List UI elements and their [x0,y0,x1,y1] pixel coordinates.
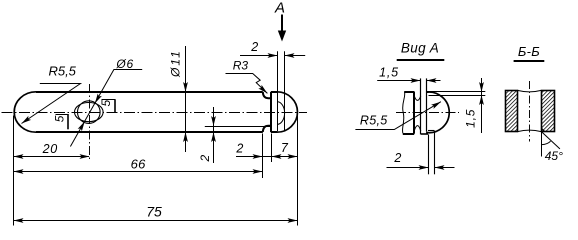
dia6 arrow upper [93,94,102,105]
head slot bottom arc [277,102,285,125]
view A groove arcs [414,96,421,101]
dimension 66 [14,171,263,173]
view A dimension 1,5 top [377,80,421,82]
view A R5,5 leader [355,102,441,130]
slot width 2 dimension (top) [240,55,277,57]
dia6 arrow lower [78,120,87,131]
45 degree dimension [541,132,543,157]
svg-text:5: 5 [52,115,66,122]
view A centerline [396,112,459,114]
svg-text:20: 20 [42,142,58,156]
svg-text:45°: 45° [545,149,563,163]
dimension 2 and 7 (bottom right) [236,156,297,158]
extension line groove right [271,134,273,163]
R3 leader [226,74,268,94]
view A body edges [404,91,414,93]
svg-text:Виg A: Виg A [401,40,439,55]
section chamfer edge [541,128,545,132]
svg-text:7: 7 [281,141,289,155]
dia11 dimension [185,46,187,152]
svg-text:R3: R3 [233,59,249,73]
svg-text:2: 2 [250,40,258,54]
section right wall hatched [542,91,555,132]
svg-text:2: 2 [198,155,212,163]
svg-text:A: A [274,0,285,17]
view A dimension 2 bottom [387,167,429,169]
view A bottom extension lines [428,134,430,174]
svg-text:75: 75 [146,204,162,220]
groove profile [263,92,271,98]
view A slot bottom step [421,133,428,135]
svg-text:2: 2 [235,142,243,156]
svg-text:1,5: 1,5 [464,109,478,128]
hole circle dia 6 [78,101,101,124]
groove depth 2 dimension [213,107,215,163]
extension line right end [297,116,299,226]
view A top extension horizontals [426,91,485,93]
svg-text:R5,5: R5,5 [360,114,388,128]
svg-text:Б-Б: Б-Б [518,44,540,59]
pin body outline [14,92,36,132]
groove bottom extension line [205,126,271,128]
view A dimension 1,5 right [481,78,483,133]
view A bottom tab shelf [428,130,434,132]
dimension 75 [14,220,298,222]
hole chamfer ellipse [75,103,104,122]
svg-text:1,5: 1,5 [379,66,399,80]
view A head circle [426,92,449,133]
section left wall hatched [506,91,518,132]
section top surface curve [518,90,542,92]
view A break line [402,92,404,134]
head slot lines [277,51,279,131]
hole vertical centerline [89,84,91,161]
svg-text:R5,5: R5,5 [48,64,76,79]
dimension 20 [14,156,90,158]
R5,5 leader main [22,84,81,124]
head outline [270,92,272,132]
svg-text:5: 5 [99,100,113,107]
main axis centerline [2,112,308,114]
dia6 leader line [70,70,142,147]
section bottom surface curve [518,130,542,132]
svg-text:Ø6: Ø6 [115,57,134,71]
section centerline [529,81,531,142]
svg-text:66: 66 [131,156,147,171]
section arrow A [281,15,283,32]
view A slot edges [420,78,422,134]
extension line groove left [262,134,264,179]
mark 5 left [56,114,69,116]
mark 5 right [102,99,116,101]
svg-text:2: 2 [393,151,401,165]
svg-text:Ø11: Ø11 [168,49,182,78]
extension line left end [13,116,15,226]
